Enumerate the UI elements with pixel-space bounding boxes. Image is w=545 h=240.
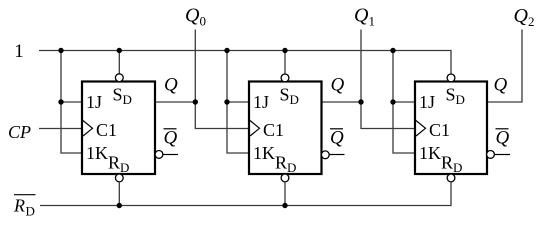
pin RD U3 [441,153,462,176]
svg-text:D: D [287,160,296,175]
svg-text:C1: C1 [96,120,117,140]
svg-text:1K: 1K [253,143,275,163]
pin SD U2 [280,85,299,108]
svg-text:Q: Q [354,5,369,27]
wire Q1 tap [360,30,362,103]
bubble Qbar U3 [487,151,495,159]
wire FF1 JK feed [61,51,82,154]
wire Q output U3 to Q2 [488,30,522,103]
svg-text:2: 2 [528,14,535,29]
wire FF2 SD drop [284,51,286,75]
bubble Qbar U1 [155,151,163,159]
svg-text:Q: Q [494,75,508,96]
wire FF2 RD drop [284,181,286,205]
node Qbar label U2 [330,128,344,149]
wire Qbar stub U1 [162,154,178,156]
bubble SD U1 [115,74,123,82]
svg-text:D: D [26,204,35,219]
svg-text:D: D [290,92,299,107]
bubble RD U2 [281,174,289,182]
wire Q output U2 [323,101,362,103]
wire Q output U1 [156,101,195,103]
wire Qbar stub U2 [329,154,345,156]
svg-text:R: R [108,153,120,173]
junction dots J row [58,99,63,104]
svg-text:1K: 1K [419,143,441,163]
wire CP input [39,128,82,130]
node Qbar label U3 [496,128,510,149]
svg-text:D: D [120,160,129,175]
clock triangle U3 [416,121,426,137]
clock triangle U1 [83,121,93,137]
node Q1 label [354,5,375,29]
svg-text:S: S [446,85,456,105]
pin SD U1 [113,85,132,108]
junction dots bottom rail [117,203,122,208]
svg-text:D: D [453,160,462,175]
svg-text:Q: Q [164,75,178,96]
svg-text:S: S [113,85,123,105]
pin RD U2 [275,153,296,176]
svg-text:Q: Q [164,128,178,149]
svg-text:1K: 1K [86,143,108,163]
node Q0 label [185,5,206,29]
bubble SD U2 [281,74,289,82]
bubble SD U3 [447,74,455,82]
svg-text:S: S [280,85,290,105]
bubble RD U1 [115,174,123,182]
svg-text:D: D [456,92,465,107]
svg-text:C1: C1 [263,120,284,140]
svg-text:1: 1 [369,14,376,29]
bubble RD U3 [447,174,455,182]
svg-text:1J: 1J [253,92,269,112]
wire FF2 clock feed [195,102,249,129]
svg-text:Q: Q [185,5,200,27]
node RDbar label [13,195,36,219]
wire FF3 JK feed [393,51,415,154]
wire Qbar stub U3 [494,154,510,156]
pin RD U1 [108,153,129,176]
svg-text:0: 0 [200,14,207,29]
svg-text:Q: Q [496,128,510,149]
svg-text:R: R [13,196,25,216]
svg-text:1: 1 [14,41,23,62]
wire Q0 tap [194,30,196,103]
svg-text:D: D [123,92,132,107]
clock triangle U2 [250,121,260,137]
svg-text:1J: 1J [419,92,435,112]
flip-flop U2 box [249,82,322,175]
wire RD bottom rail [40,181,451,205]
svg-text:Q: Q [331,75,345,96]
svg-text:CP: CP [8,122,31,142]
svg-text:C1: C1 [429,120,450,140]
wire FF1 SD drop [118,51,120,75]
wire FF3 clock feed [361,102,415,129]
node Qbar label U1 [164,128,178,149]
node Q2 label [514,5,535,29]
svg-text:R: R [441,153,453,173]
wire FF1 RD drop [118,181,120,205]
pin SD U3 [446,85,465,108]
junction dots top rail [58,48,63,53]
svg-text:Q: Q [514,5,529,27]
bubble Qbar U2 [321,151,329,159]
wire FF2 JK feed [227,51,249,154]
flip-flop U3 box [415,82,487,175]
flip-flop U1 box [82,82,155,175]
svg-text:1J: 1J [86,92,102,112]
wire top rail "1" [39,51,451,75]
svg-text:R: R [275,153,287,173]
svg-text:Q: Q [330,128,344,149]
